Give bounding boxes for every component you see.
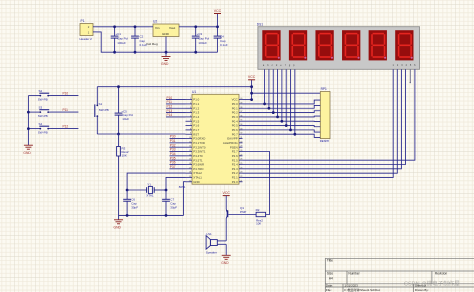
svg-text:Drawn By:: Drawn By: <box>415 288 429 292</box>
display segment pin b <box>268 69 270 108</box>
capacitor C3 <box>192 27 210 52</box>
display pin name labels <box>263 64 416 67</box>
svg-text:RESP8: RESP8 <box>320 139 330 143</box>
svg-text:RP1: RP1 <box>321 87 327 91</box>
junction reset node <box>117 133 120 136</box>
wire P0.5 to RP1 pin 7 <box>243 126 321 127</box>
wire XTAL1 to crystal <box>166 177 186 190</box>
junction C4 top <box>216 25 219 28</box>
svg-text:GND: GND <box>161 62 169 66</box>
capacitor C5 <box>115 87 134 134</box>
resistor R2 <box>256 208 266 226</box>
resistor network RP1 <box>320 87 330 143</box>
junction C2 bottom <box>134 51 137 54</box>
power VCC at Q1 <box>223 191 231 209</box>
net label wires P3.0-P3.7 <box>170 139 186 169</box>
svg-text:VCC: VCC <box>223 191 231 195</box>
display select pin digit6 wire <box>243 69 415 160</box>
svg-text:P14: P14 <box>167 113 173 117</box>
display unconnected pin <box>410 69 411 83</box>
net label P33 <box>170 148 176 152</box>
wire U2 Vout to VCC node <box>184 26 218 28</box>
wire P0.3 to RP1 pin 5 <box>243 115 321 118</box>
svg-text:File:: File: <box>326 288 332 292</box>
svg-text:SW-PB: SW-PB <box>38 130 48 134</box>
wire S3 to net label <box>51 111 79 113</box>
junction crystal left <box>126 189 129 192</box>
svg-text:8051: 8051 <box>179 185 186 189</box>
svg-text:VCC: VCC <box>248 75 256 79</box>
svg-text:GND: GND <box>114 225 122 229</box>
svg-text:1/31/2023: 1/31/2023 <box>344 284 358 288</box>
wire P0.1 to RP1 pin 3 <box>243 105 321 108</box>
power VCC supply output <box>214 9 222 27</box>
svg-text:P11: P11 <box>63 108 69 112</box>
ground symbol speaker <box>221 244 231 265</box>
svg-text:Volt Reg: Volt Reg <box>146 42 158 46</box>
svg-text:U1: U1 <box>192 90 196 94</box>
wire MCU VCC pin to VCC vertical <box>243 99 252 101</box>
junction segment pin <box>263 103 266 106</box>
svg-text:LS1: LS1 <box>206 232 212 236</box>
svg-text:10K: 10K <box>256 222 261 226</box>
junction segment pin <box>276 116 279 119</box>
junction segment pin <box>268 107 271 110</box>
7-segment display DS1 <box>257 23 420 70</box>
svg-text:30pF: 30pF <box>170 205 177 209</box>
junction segment pin <box>293 133 296 136</box>
wire S4 to net label <box>51 128 79 130</box>
ground symbol power section <box>161 52 171 66</box>
svg-text:A4: A4 <box>329 277 333 281</box>
svg-text:SW-PB: SW-PB <box>99 108 109 112</box>
svg-text:GND: GND <box>23 151 31 155</box>
svg-text:P37: P37 <box>170 165 176 169</box>
svg-text:U2: U2 <box>153 20 157 24</box>
net label P10 <box>167 96 173 100</box>
junction reset rail to VCC <box>250 85 253 88</box>
voltage regulator U2 <box>146 20 184 53</box>
wire R2 to Q1 base <box>228 214 256 216</box>
net label P12 <box>63 125 69 129</box>
wire P1 pin2 to U2 Vin <box>97 26 149 28</box>
svg-text:F:\数显时钟\Sheet1.SchDoc: F:\数显时钟\Sheet1.SchDoc <box>344 287 380 292</box>
svg-text:S2: S2 <box>39 89 43 93</box>
svg-text:GND: GND <box>221 261 229 265</box>
svg-text:XTAL: XTAL <box>146 194 154 198</box>
speaker LS1 <box>206 232 226 254</box>
svg-text:S1: S1 <box>99 102 103 106</box>
svg-text:P10: P10 <box>63 92 69 96</box>
display segment pin dp <box>294 69 296 134</box>
ground rail of power section <box>115 51 218 53</box>
wire XTAL2 to crystal <box>127 173 185 190</box>
wire P1 pin1 down to ground rail <box>97 32 115 52</box>
junction C3 top <box>194 25 197 28</box>
svg-text:DS1: DS1 <box>257 23 263 27</box>
wire buttons common vertical <box>27 96 29 146</box>
junction segment pin <box>280 120 283 123</box>
svg-text:CSDN @微电子制作屋: CSDN @微电子制作屋 <box>404 280 460 288</box>
switch S3 <box>28 105 50 118</box>
svg-text:10K: 10K <box>122 153 127 157</box>
svg-text:SW-PB: SW-PB <box>38 114 48 118</box>
junction C2 top <box>134 25 137 28</box>
svg-text:100uF: 100uF <box>117 41 126 45</box>
net label P31 <box>170 139 176 143</box>
capacitor C4 <box>214 27 228 52</box>
title block <box>325 258 474 292</box>
wire P0.4 to RP1 pin 6 <box>243 120 321 122</box>
display select pin digit4 wire <box>243 69 406 164</box>
junction C7 bottom <box>165 214 168 217</box>
net label P11 <box>167 100 173 104</box>
junction C3 bottom <box>194 51 197 54</box>
net label P34 <box>170 152 176 156</box>
net label P14 <box>167 113 173 117</box>
net label P35 <box>170 156 176 160</box>
wire P0.6 to RP1 pin 8 <box>243 130 321 132</box>
junction segment pin <box>289 128 292 131</box>
wire P0.2 to RP1 pin 4 <box>243 111 321 113</box>
junction segment pin <box>272 111 275 114</box>
svg-text:GND: GND <box>162 32 170 36</box>
svg-text:Revision: Revision <box>435 271 447 275</box>
net label wires P1.0-P1.4 <box>166 100 186 117</box>
ground symbol buttons <box>23 145 33 155</box>
junction VCC vertical <box>250 98 253 101</box>
svg-text:Title: Title <box>327 259 333 263</box>
junction S4 common <box>27 127 30 130</box>
svg-text:Date:: Date: <box>326 284 333 288</box>
svg-text:S3: S3 <box>39 105 43 109</box>
transistor Q1 <box>226 206 246 241</box>
display segment pin e <box>281 69 283 121</box>
svg-text:P1: P1 <box>81 19 85 23</box>
power VCC at MCU <box>248 75 256 99</box>
net label P30 <box>170 135 176 139</box>
svg-text:10uF: 10uF <box>122 117 129 121</box>
svg-text:P2.0: P2.0 <box>232 180 238 184</box>
svg-text:100uF: 100uF <box>198 41 207 45</box>
display select pin digit3 wire <box>243 69 402 169</box>
net label P11 <box>63 108 69 112</box>
wire reset node to RST pin <box>97 133 185 135</box>
display select pin digit2 wire <box>243 69 398 173</box>
crystal Y1 <box>127 182 166 197</box>
junction C6 bottom <box>126 214 129 217</box>
wire P0.7 to RP1 pin 9 <box>243 134 321 137</box>
svg-text:Vout: Vout <box>169 26 175 30</box>
display segment pin f <box>285 69 287 125</box>
wire reset VCC rail <box>97 86 251 88</box>
capacitor C1 <box>111 27 129 52</box>
wire VCC to RP1 common pin <box>252 92 321 94</box>
svg-text:Number: Number <box>348 272 360 276</box>
display select pin digit1 wire <box>243 69 394 177</box>
wire P0.0 to RP1 pin 2 <box>243 100 321 104</box>
wire MCU GND pin to ground rail <box>184 182 186 216</box>
junction VCC to RP1 <box>250 92 253 95</box>
svg-text:GND: GND <box>193 180 199 184</box>
net label P37 <box>170 165 176 169</box>
svg-text:PNP: PNP <box>240 210 246 214</box>
junction segment pin <box>285 124 288 127</box>
svg-text:P12: P12 <box>63 125 69 129</box>
switch S2 <box>28 89 50 102</box>
junction C1 top <box>113 25 116 28</box>
switch S1 reset <box>95 87 109 134</box>
junction C1 bottom <box>113 51 116 54</box>
junction crystal right <box>165 189 168 192</box>
net label P36 <box>170 161 176 165</box>
connector P1 <box>80 19 97 41</box>
junction C5 top <box>117 85 120 88</box>
ground symbol crystal <box>114 215 124 229</box>
svg-text:Size: Size <box>327 272 333 276</box>
wire P2.7 to R2 <box>243 152 270 215</box>
wire S2 to net label <box>51 95 79 97</box>
net label P32 <box>170 143 176 147</box>
junction regulator GND <box>165 51 168 54</box>
display segment pin g <box>290 69 292 130</box>
capacitor C7 <box>162 190 177 215</box>
capacitor C6 <box>123 190 138 215</box>
svg-text:SW-PB: SW-PB <box>38 97 48 101</box>
svg-text:S4: S4 <box>39 122 43 126</box>
svg-text:30pF: 30pF <box>131 205 138 209</box>
net label P10 <box>63 92 69 96</box>
capacitor C2 <box>131 27 147 52</box>
svg-text:VCC: VCC <box>214 9 222 13</box>
net label P13 <box>167 109 173 113</box>
junction S3 common <box>27 111 30 114</box>
display segment pin c <box>272 69 274 112</box>
ground rail crystal <box>119 214 184 216</box>
switch S4 <box>28 122 50 135</box>
net label P12 <box>167 104 173 108</box>
display segment pin a <box>264 69 266 104</box>
svg-text:Speaker: Speaker <box>206 250 217 254</box>
svg-text:Vin: Vin <box>155 26 160 30</box>
display segment pin d <box>277 69 279 117</box>
svg-text:R2: R2 <box>256 208 260 212</box>
svg-text:Header 2: Header 2 <box>80 37 93 41</box>
microcontroller U1 <box>179 90 244 189</box>
svg-text:Y1: Y1 <box>147 182 151 186</box>
watermark <box>404 280 460 288</box>
resistor R3 <box>117 134 129 215</box>
svg-text:0.1uF: 0.1uF <box>220 43 228 47</box>
